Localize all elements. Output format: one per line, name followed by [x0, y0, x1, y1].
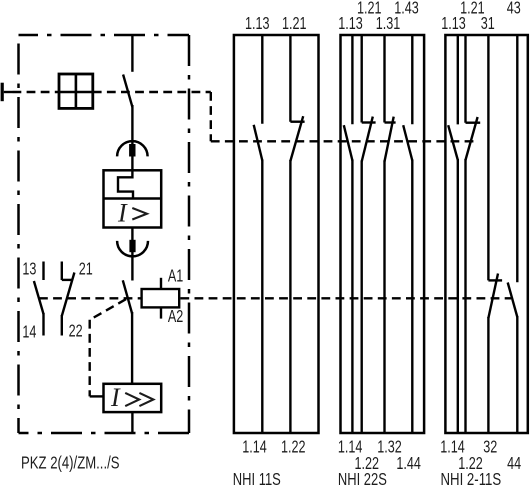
double greater-than symbol of I>> — [125, 393, 153, 406]
svg-text:I: I — [117, 198, 128, 227]
wire blade to I>> box — [131, 312, 133, 384]
NHI2-11S contact 31 top terminal — [487, 35, 489, 280]
svg-text:NHI 2-11S: NHI 2-11S — [441, 470, 502, 488]
NHI22S contact 1.32 bottom terminal — [383, 161, 385, 434]
operator square (manual actuator) — [59, 74, 93, 108]
svg-text:1.31: 1.31 — [376, 14, 400, 34]
wire dashed trip linkage y=141.2 — [211, 140, 478, 142]
trip coil A1-A2 box — [142, 289, 180, 307]
lower pole contact blade — [123, 280, 132, 313]
wire dashed corner down x=210.8 — [210, 92, 212, 141]
svg-text:PKZ 2(4)/ZM.../S: PKZ 2(4)/ZM.../S — [21, 454, 120, 473]
aux contact 13-14 blade (NO) — [34, 281, 44, 314]
svg-text:32: 32 — [483, 437, 497, 457]
aux contact 21-22 top stub — [61, 262, 63, 281]
aux contact 13-14 top stub — [42, 262, 44, 281]
svg-text:I: I — [110, 383, 121, 412]
terminal bar left (line terminal) — [1, 83, 4, 102]
aux contact 21-22 blade (NC) — [62, 273, 75, 317]
NHI2-11S contact 1.21 top terminal — [464, 35, 466, 123]
wire dashed lower linkage y=298.3 right part — [180, 297, 511, 299]
NHI22S contact 1.31 NC foot — [385, 121, 396, 123]
svg-text:22: 22 — [69, 321, 83, 341]
trip indicator lower arc — [117, 241, 148, 256]
svg-text:A2: A2 — [168, 307, 183, 327]
NHI22S contact 1.43 blade (NO) — [403, 125, 412, 160]
NHI22S contact 1.21 blade (NC) — [362, 117, 373, 162]
NHI11S contact 1.13 top terminal — [261, 35, 263, 124]
NHI22S contact 1.44 bottom terminal — [411, 160, 413, 434]
aux contact 13-14 bottom stub — [42, 313, 44, 336]
svg-text:1.22: 1.22 — [281, 437, 305, 457]
solid stub into I>> box — [90, 395, 104, 397]
main pole top stub — [131, 35, 133, 72]
NHI2-11S contact 1.13 blade (NO) — [448, 125, 458, 160]
svg-text:1.13: 1.13 — [441, 14, 465, 34]
main contact blade (breaker pole) — [123, 75, 132, 108]
NHI 11S module box — [234, 35, 319, 433]
aux contact 21-22 bottom stub — [61, 315, 63, 336]
NHI22S contact 1.21 NC foot — [362, 121, 376, 123]
coil stub A1 — [160, 278, 162, 289]
operator square cross vertical — [75, 74, 78, 108]
NHI2-11S contact 1.21 blade (NC) — [466, 117, 478, 160]
svg-text:1.21: 1.21 — [282, 14, 306, 34]
svg-text:43: 43 — [507, 0, 521, 18]
enclosure PKZ dash-dot border — [19, 35, 190, 433]
NHI2-11S contact 1.13 top terminal — [457, 35, 459, 124]
svg-text:A1: A1 — [168, 266, 183, 286]
NHI22S contact 1.21 top terminal — [361, 35, 363, 123]
wire I> box to lower indicator — [131, 228, 133, 281]
NHI2-11S contact 1.14 bottom terminal — [457, 159, 459, 433]
svg-text:44: 44 — [507, 454, 521, 474]
wire I>> box to bottom border — [131, 412, 133, 433]
NHI22S contact 1.14 bottom terminal — [351, 160, 353, 434]
NHI2-11S contact 31 NC foot — [488, 279, 502, 281]
wire dashed main line y=91.8 terminal to square — [13, 91, 60, 93]
dashed link vertical x=89.7 — [88, 320, 90, 397]
svg-text:1.44: 1.44 — [396, 454, 421, 474]
NHI22S contact 1.13 top terminal — [351, 35, 353, 124]
NHI2-11S contact 1.22 bottom terminal — [464, 159, 466, 433]
NHI 2-11S module box — [445, 35, 527, 433]
greater-than symbol of I> — [132, 208, 147, 220]
svg-text:31: 31 — [481, 14, 495, 34]
NHI11S contact 1.21 NC foot — [290, 120, 304, 122]
NHI2-11S contact 32 bottom terminal — [487, 317, 489, 433]
NHI11S contact 1.22 bottom terminal — [289, 160, 291, 433]
coil stub A2 — [160, 307, 162, 318]
NHI11S contact 1.14 bottom terminal — [261, 160, 263, 434]
NHI2-11S contact 1.21 NC foot — [466, 121, 481, 123]
overload relay divider — [104, 197, 162, 199]
svg-text:1.13: 1.13 — [338, 14, 362, 34]
thermal latch hook — [118, 170, 133, 198]
operator square cross horizontal — [59, 91, 93, 94]
NHI22S contact 1.22 bottom terminal — [361, 161, 363, 434]
svg-text:13: 13 — [22, 260, 36, 280]
NHI11S contact 1.21 top terminal — [289, 35, 291, 122]
NHI22S contact 1.13 blade (NO) — [344, 125, 353, 160]
NHI 22S module box — [341, 35, 425, 433]
svg-text:21: 21 — [79, 260, 93, 280]
dashed link blade to magnetic trip diagonal — [90, 299, 126, 320]
NHI22S contact 1.31 top terminal — [383, 35, 385, 123]
wire dashed main line square to corner — [93, 91, 211, 93]
trip indicator upper arc — [117, 141, 148, 156]
NHI2-11S contact 43 top terminal — [516, 35, 518, 282]
NHI2-11S contact 31 blade (NC) — [488, 274, 498, 319]
svg-text:1.13: 1.13 — [245, 14, 269, 34]
svg-text:NHI 11S: NHI 11S — [233, 470, 281, 488]
NHI11S contact 1.13 blade (NO) — [254, 125, 263, 161]
NHI11S contact 1.21 blade (NC) — [290, 116, 303, 161]
trip indicator upper bar — [129, 144, 135, 157]
wire dashed lower linkage y=298.3 left part — [39, 297, 141, 299]
NHI22S contact 1.31 blade (NC) — [385, 117, 394, 162]
aux contact 21-22 NC foot — [62, 279, 73, 281]
NHI2-11S contact 44 bottom terminal — [516, 316, 518, 433]
svg-text:NHI 22S: NHI 22S — [338, 470, 387, 488]
overload relay box I> frame — [104, 170, 162, 227]
NHI2-11S contact 43 blade (NO) — [508, 283, 518, 318]
magnetic trip box I>> frame — [104, 384, 162, 412]
NHI22S contact 1.43 top terminal — [411, 35, 413, 124]
svg-text:14: 14 — [22, 322, 36, 342]
svg-text:1.14: 1.14 — [242, 437, 267, 457]
wire pole to trip indicator — [131, 105, 133, 170]
trip indicator lower bar — [129, 240, 135, 252]
wire solid stub from terminal — [4, 91, 13, 93]
